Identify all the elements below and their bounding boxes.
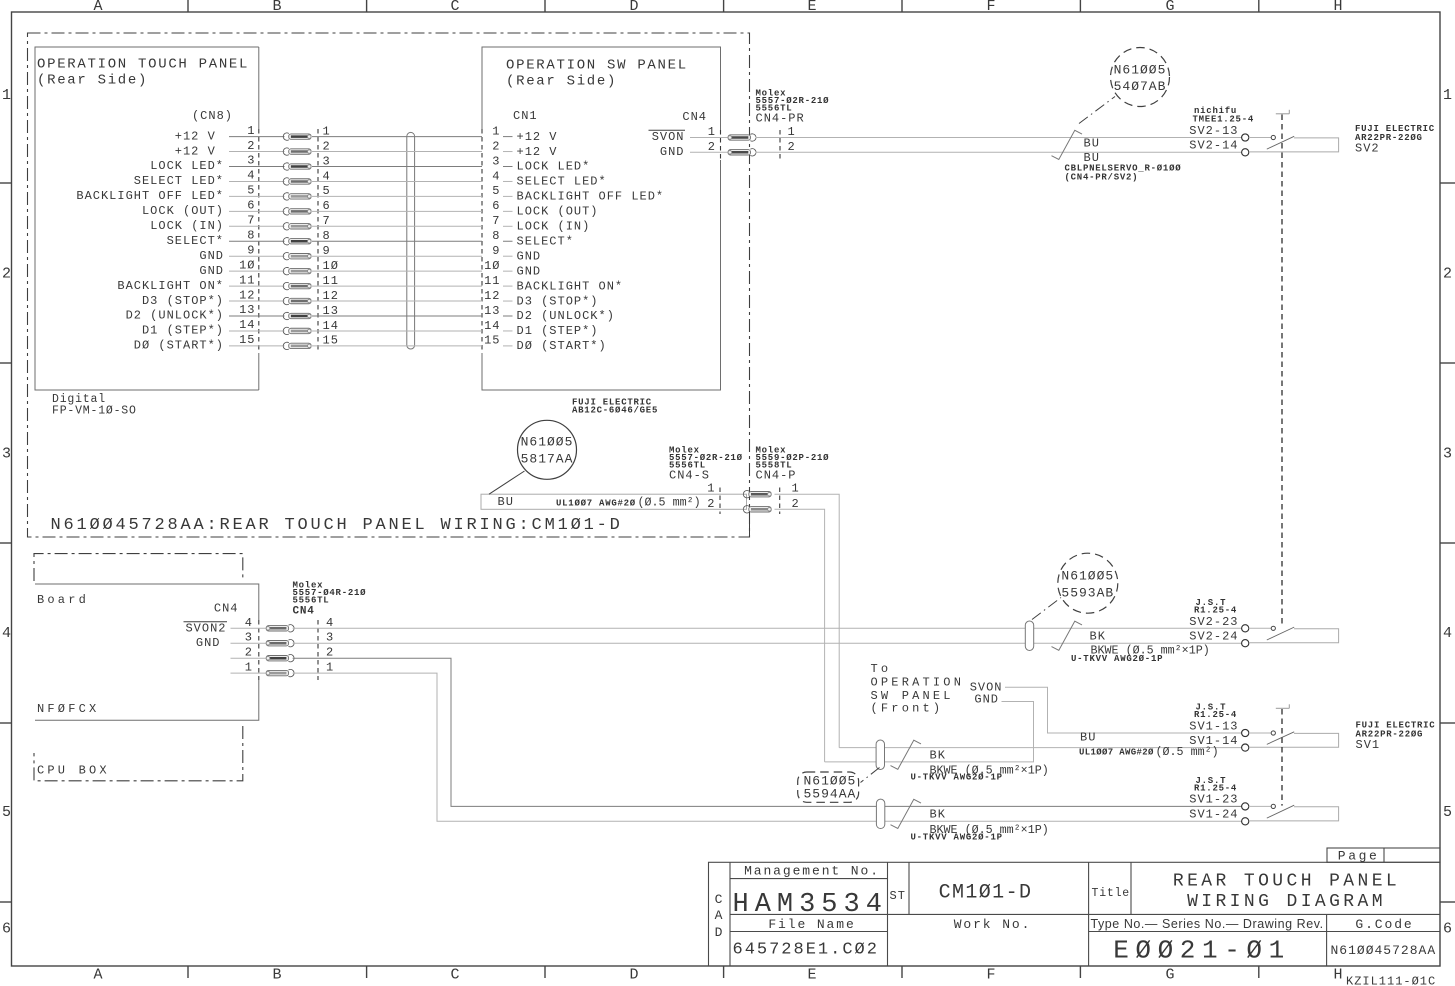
crimp contact CN4-PR pin 2 bbox=[750, 149, 756, 156]
cable break symbol (SV2-23/24 pair) bbox=[1052, 621, 1083, 650]
svg-text:SV1-13: SV1-13 bbox=[1189, 719, 1238, 733]
svg-text:B: B bbox=[272, 0, 281, 15]
svg-text:SV2: SV2 bbox=[1355, 142, 1380, 156]
svg-text:SV1-24: SV1-24 bbox=[1189, 808, 1238, 822]
wire CN8 pin 14 (panel to contact) bbox=[229, 330, 285, 332]
svg-text:5594AA: 5594AA bbox=[804, 787, 857, 802]
wire CN4 pin 2 stub bbox=[690, 151, 728, 153]
svg-text:LOCK (IN): LOCK (IN) bbox=[517, 220, 591, 234]
wire CN8-CN1 pin 3 bbox=[312, 166, 482, 168]
svg-text:(CN4-PR/SV2): (CN4-PR/SV2) bbox=[1065, 173, 1139, 183]
svg-text:N61ØØ5: N61ØØ5 bbox=[521, 435, 574, 450]
wire CN4-PR pin 1 to SV2-13 bbox=[756, 137, 1242, 139]
crimp contact CN8 pin 12 bbox=[283, 297, 289, 304]
svg-text:BACKLIGHT OFF LED*: BACKLIGHT OFF LED* bbox=[76, 189, 224, 203]
wire board pin 3 to SV2-24 bbox=[293, 642, 1242, 644]
wire CN8-CN1 pin 10 bbox=[312, 270, 482, 272]
crimp contact CN8 pin 5 bbox=[283, 193, 289, 200]
svg-text:C: C bbox=[450, 967, 459, 984]
svg-text:GND: GND bbox=[660, 145, 685, 159]
crimp contact CN8 pin 13 bbox=[283, 312, 289, 319]
svg-text:2: 2 bbox=[492, 139, 500, 153]
connector CN4-S boundary (dashed) bbox=[719, 488, 721, 515]
svg-text:F: F bbox=[986, 967, 995, 984]
svg-text:GND: GND bbox=[517, 249, 542, 263]
wire CN8 pin 1 (panel to contact) bbox=[229, 136, 285, 138]
svg-text:6: 6 bbox=[2, 921, 11, 938]
wire CN8 pin 9 (panel to contact) bbox=[229, 255, 285, 257]
svg-text:BU: BU bbox=[1084, 137, 1100, 151]
wire CN8-CN1 pin 15 bbox=[312, 345, 482, 347]
connector CN4-P boundary (dashed) bbox=[779, 488, 781, 515]
wire CN8 pin 6 (panel to contact) bbox=[229, 210, 285, 212]
svg-text:SELECT LED*: SELECT LED* bbox=[134, 174, 224, 188]
svg-text:(Front): (Front) bbox=[871, 701, 944, 715]
wire CN8-CN1 pin 5 bbox=[312, 195, 482, 197]
cable sheath marker BKWE (CN4-P pair) bbox=[876, 740, 884, 769]
svg-text:3: 3 bbox=[1443, 446, 1452, 463]
wire CN8 pin 7 (panel to contact) bbox=[229, 225, 285, 227]
svg-text:OPERATION: OPERATION bbox=[871, 676, 965, 690]
svg-text:GND: GND bbox=[974, 693, 999, 707]
svg-text:13: 13 bbox=[484, 304, 500, 318]
svg-text:15: 15 bbox=[484, 334, 500, 348]
crimp contact board CN4 pin 3 bbox=[289, 640, 295, 647]
svg-text:4: 4 bbox=[326, 616, 334, 630]
svg-text:LOCK (IN): LOCK (IN) bbox=[150, 219, 224, 233]
svg-text:D3 (STOP*): D3 (STOP*) bbox=[142, 294, 224, 308]
svg-text:7: 7 bbox=[247, 214, 255, 228]
revision balloon N61005 5593AB bbox=[1058, 553, 1118, 613]
svg-text:N61ØØ45728AA: N61ØØ45728AA bbox=[1331, 943, 1437, 958]
switch SV1 contact 13-14 bbox=[1242, 729, 1249, 736]
wire CN1 pin 15 stub bbox=[503, 345, 513, 347]
inter-panel cable sheath marker bbox=[407, 132, 415, 349]
wire CN1 pin 7 stub bbox=[503, 225, 513, 227]
wire CN1 pin 3 stub bbox=[503, 166, 513, 168]
svg-text:3: 3 bbox=[2, 446, 11, 463]
revision balloon N61005 5594AA (rounded box) bbox=[798, 772, 859, 802]
svg-text:Board: Board bbox=[37, 593, 89, 607]
svg-text:N61ØØ45728AA:REAR TOUCH PANEL: N61ØØ45728AA:REAR TOUCH PANEL WIRING:CM1… bbox=[51, 516, 623, 535]
wire CN1 pin 12 stub bbox=[503, 300, 513, 302]
svg-text:E: E bbox=[807, 0, 816, 15]
svg-text:CN4: CN4 bbox=[293, 606, 315, 618]
wire CN4 pin 1 stub bbox=[690, 137, 728, 139]
svg-text:CPU BOX: CPU BOX bbox=[37, 764, 110, 778]
cable-assembly enclosure (dash-dot boundary) N610045728AA bbox=[28, 33, 750, 537]
svg-text:9: 9 bbox=[492, 244, 500, 258]
wire CN8-CN1 pin 1 bbox=[312, 136, 482, 138]
wire CN4-P pin 1 (right then down) bbox=[775, 494, 840, 747]
svg-text:2: 2 bbox=[792, 497, 800, 511]
svg-text:D: D bbox=[629, 0, 638, 15]
connector CN1 boundary (dashed) bbox=[481, 129, 483, 353]
crimp contact CN8 pin 11 bbox=[283, 282, 289, 289]
wire CN8 pin 11 (panel to contact) bbox=[229, 285, 285, 287]
svg-text:N61ØØ5: N61ØØ5 bbox=[1061, 569, 1114, 584]
crimp contact CN8 pin 2 bbox=[283, 148, 289, 155]
cable break symbol (SV1-23/24 pair) bbox=[891, 799, 922, 828]
cable sheath marker BKWE (SV2-23/24 pair) bbox=[1025, 621, 1033, 650]
svg-text:1: 1 bbox=[2, 87, 11, 104]
wire GND (front) to CN4-P pin 2 bbox=[825, 702, 1034, 762]
crimp contact CN8 pin 15 bbox=[283, 342, 289, 349]
svg-text:OPERATION TOUCH PANEL: OPERATION TOUCH PANEL bbox=[37, 57, 249, 73]
svg-text:4: 4 bbox=[2, 625, 11, 642]
svg-text:3: 3 bbox=[245, 631, 253, 645]
svg-text:(Rear Side): (Rear Side) bbox=[506, 73, 617, 89]
svg-text:54Ø7AB: 54Ø7AB bbox=[1114, 79, 1167, 94]
wire CN8-CN1 pin 14 bbox=[312, 330, 482, 332]
svg-text:1: 1 bbox=[492, 124, 500, 138]
svg-text:GND: GND bbox=[199, 264, 224, 278]
wire CN1 pin 4 stub bbox=[503, 180, 513, 182]
svg-text:NFØFCX: NFØFCX bbox=[37, 702, 99, 716]
svg-text:ST: ST bbox=[890, 889, 906, 903]
leader to balloon 5593AB bbox=[1032, 598, 1061, 620]
mechanical link SV1 (dashed) bbox=[1276, 707, 1290, 709]
svg-text:SV2-14: SV2-14 bbox=[1189, 139, 1238, 153]
svg-text:11: 11 bbox=[239, 273, 255, 287]
page cell bbox=[1327, 848, 1440, 862]
title block bbox=[709, 862, 1441, 966]
svg-text:5: 5 bbox=[2, 804, 11, 821]
svg-text:LOCK (OUT): LOCK (OUT) bbox=[517, 205, 599, 219]
wire CN8 pin 12 (panel to contact) bbox=[229, 300, 285, 302]
svg-text:OPERATION SW PANEL: OPERATION SW PANEL bbox=[506, 57, 688, 73]
svg-text:File Name: File Name bbox=[768, 917, 855, 932]
wire CN8 pin 2 (panel to contact) bbox=[229, 151, 285, 153]
svg-text:14: 14 bbox=[484, 319, 500, 333]
svg-text:3: 3 bbox=[247, 154, 255, 168]
svg-text:SV2-23: SV2-23 bbox=[1189, 615, 1238, 629]
svg-text:+12 V: +12 V bbox=[175, 129, 224, 143]
svg-text:Type No.— Series No.— Drawing: Type No.— Series No.— Drawing Rev. bbox=[1091, 917, 1324, 931]
svg-text:UL1ØØ7 AWG#2Ø: UL1ØØ7 AWG#2Ø bbox=[1079, 748, 1154, 758]
crimp contact CN8 pin 8 bbox=[283, 238, 289, 245]
wire board CN4 pin 4 stub bbox=[231, 627, 266, 629]
svg-text:1Ø: 1Ø bbox=[239, 258, 255, 272]
svg-text:645728E1.CØ2: 645728E1.CØ2 bbox=[733, 941, 879, 960]
svg-text:SELECT*: SELECT* bbox=[167, 234, 224, 248]
wire CN8-CN1 pin 13 bbox=[312, 315, 482, 317]
svg-text:7: 7 bbox=[492, 214, 500, 228]
wire CN8 pin 8 (panel to contact) bbox=[229, 240, 285, 242]
svg-text:6: 6 bbox=[1443, 921, 1452, 938]
svg-text:G.Code: G.Code bbox=[1355, 917, 1413, 932]
wire CN1 pin 13 stub bbox=[503, 315, 513, 317]
wire SVON to SV1-13 bbox=[1005, 687, 1242, 733]
svg-text:AB12C-6Ø46/GE5: AB12C-6Ø46/GE5 bbox=[572, 406, 658, 416]
svg-text:1: 1 bbox=[247, 124, 255, 138]
connector CN4 cable boundary (dashed) bbox=[317, 620, 319, 680]
svg-text:+12 V: +12 V bbox=[517, 145, 558, 159]
operation sw panel outline (rear side) bbox=[482, 47, 721, 390]
svg-text:12: 12 bbox=[239, 288, 255, 302]
svg-text:1Ø: 1Ø bbox=[484, 259, 500, 273]
svg-text:GND: GND bbox=[199, 249, 224, 263]
enclosure edge stub below CN4-P bbox=[749, 512, 751, 537]
svg-text:2: 2 bbox=[245, 646, 253, 660]
svg-text:UL1ØØ7 AWG#2Ø: UL1ØØ7 AWG#2Ø bbox=[556, 499, 636, 509]
svg-text:(CN8): (CN8) bbox=[192, 109, 233, 123]
svg-text:15: 15 bbox=[239, 333, 255, 347]
svg-text:D: D bbox=[715, 925, 724, 940]
crimp contact CN8 pin 10 bbox=[283, 268, 289, 275]
svg-text:A: A bbox=[715, 908, 724, 923]
svg-text:FP-VM-1Ø-SO: FP-VM-1Ø-SO bbox=[52, 405, 137, 418]
svg-text:4: 4 bbox=[1443, 625, 1452, 642]
svg-text:SELECT*: SELECT* bbox=[517, 234, 574, 248]
svg-text:3: 3 bbox=[326, 631, 334, 645]
wire CN1 pin 2 stub bbox=[503, 151, 513, 153]
crimp contact CN8 pin 14 bbox=[283, 327, 289, 334]
svg-text:BK: BK bbox=[930, 808, 946, 822]
svg-text:SV1: SV1 bbox=[1356, 738, 1381, 752]
svg-text:11: 11 bbox=[484, 274, 500, 288]
connector CN8 plug boundary (dashed) bbox=[258, 129, 260, 353]
svg-text:1: 1 bbox=[708, 125, 716, 139]
svg-text:Page: Page bbox=[1338, 848, 1380, 863]
svg-text:4: 4 bbox=[492, 169, 500, 183]
wire CN8-CN1 pin 2 bbox=[312, 151, 482, 153]
wire CN8 pin 5 (panel to contact) bbox=[229, 195, 285, 197]
crimp contact board CN4 pin 4 bbox=[289, 625, 295, 632]
svg-text:HAM3534: HAM3534 bbox=[733, 890, 888, 920]
switch SV2 contact 23-24 bbox=[1242, 625, 1249, 632]
CN8 receptacle boundary (dashed) bbox=[317, 129, 319, 353]
svg-text:2: 2 bbox=[326, 646, 334, 660]
svg-text:DØ (START*): DØ (START*) bbox=[134, 339, 224, 353]
svg-text:1: 1 bbox=[326, 661, 334, 675]
svg-text:WIRING DIAGRAM: WIRING DIAGRAM bbox=[1187, 892, 1386, 912]
wire CN8 pin 3 (panel to contact) bbox=[229, 166, 285, 168]
wire board pin 1 (right, down, right to SV1-24) bbox=[293, 673, 1242, 821]
svg-text:H: H bbox=[1333, 967, 1342, 984]
svg-text:U-TKVV AWG2Ø-1P: U-TKVV AWG2Ø-1P bbox=[911, 833, 1003, 843]
wire CN8-CN1 pin 11 bbox=[312, 285, 482, 287]
svg-text:2: 2 bbox=[247, 139, 255, 153]
svg-text:F: F bbox=[986, 0, 995, 15]
wire CN8 pin 4 (panel to contact) bbox=[229, 180, 285, 182]
svg-text:G: G bbox=[1165, 0, 1174, 15]
svg-text:CM1Ø1-D: CM1Ø1-D bbox=[939, 882, 1033, 905]
wire CN1 pin 11 stub bbox=[503, 285, 513, 287]
svg-text:CN4-PR: CN4-PR bbox=[756, 112, 805, 126]
svg-text:D1 (STEP*): D1 (STEP*) bbox=[517, 324, 599, 338]
svg-text:2: 2 bbox=[1443, 266, 1452, 283]
CPU box boundary (dash-dot, upper part) bbox=[34, 554, 243, 581]
svg-text:14: 14 bbox=[239, 318, 255, 332]
svg-text:2: 2 bbox=[788, 140, 796, 154]
svg-text:KZIL111-Ø1C: KZIL111-Ø1C bbox=[1346, 975, 1436, 986]
connector CN4 boundary (dashed) bbox=[720, 130, 722, 160]
connector CN4 board boundary (dashed) bbox=[258, 620, 260, 680]
revision balloon N61005 5817AA bbox=[518, 420, 577, 479]
svg-text:To: To bbox=[871, 662, 892, 676]
wire CN4-P pin 1 to SV1-14 bbox=[839, 747, 1241, 749]
svg-text:CN4: CN4 bbox=[214, 602, 239, 616]
svg-text:BACKLIGHT OFF LED*: BACKLIGHT OFF LED* bbox=[517, 190, 665, 204]
svg-text:SVON2: SVON2 bbox=[185, 621, 226, 635]
crimp contact CN4-S pin 1 bbox=[743, 491, 749, 498]
svg-text:1: 1 bbox=[792, 482, 800, 496]
revision balloon N61005 5407AB bbox=[1111, 48, 1170, 107]
wire CN8 pin 15 (panel to contact) bbox=[229, 345, 285, 347]
svg-text:DØ (START*): DØ (START*) bbox=[517, 339, 607, 353]
wire board pin 2 (right, down, right to SV1-23) bbox=[293, 658, 1242, 806]
wire CN4-P pin 2 (right then down) bbox=[775, 509, 825, 762]
crimp contact CN8 pin 7 bbox=[283, 223, 289, 230]
wire CN8-CN1 pin 7 bbox=[312, 225, 482, 227]
svg-text:H: H bbox=[1333, 0, 1342, 15]
leader to balloon 5594AA bbox=[861, 768, 880, 783]
crimp contact board CN4 pin 1 bbox=[289, 669, 295, 676]
connector CN4-PR boundary (dashed) bbox=[779, 130, 781, 160]
crimp contact CN8 pin 3 bbox=[283, 163, 289, 170]
board outline NF0FCX bbox=[35, 584, 259, 720]
crimp contact board CN4 pin 2 bbox=[289, 655, 295, 662]
switch SV1 contact 23-24 bbox=[1242, 803, 1249, 810]
wire CN1 pin 8 stub bbox=[503, 240, 513, 242]
svg-text:BACKLIGHT ON*: BACKLIGHT ON* bbox=[117, 279, 224, 293]
svg-text:5: 5 bbox=[1443, 804, 1452, 821]
svg-text:CN4: CN4 bbox=[682, 110, 707, 124]
svg-text:8: 8 bbox=[247, 228, 255, 242]
wire board pin 4 to SV2-23 bbox=[293, 627, 1242, 629]
svg-text:GND: GND bbox=[517, 264, 542, 278]
svg-text:C: C bbox=[715, 892, 724, 907]
operation touch panel outline (rear side) bbox=[35, 47, 259, 390]
svg-text:LOCK LED*: LOCK LED* bbox=[150, 159, 224, 173]
svg-text:5817AA: 5817AA bbox=[521, 452, 574, 467]
svg-text:+12 V: +12 V bbox=[517, 130, 558, 144]
switch SV2 contact 13-14 bbox=[1242, 134, 1249, 141]
cable sheath marker BKWE (SV1-23/24 pair) bbox=[876, 799, 884, 828]
svg-text:+12 V: +12 V bbox=[175, 144, 224, 158]
svg-text:5: 5 bbox=[247, 184, 255, 198]
svg-text:2: 2 bbox=[707, 497, 715, 511]
svg-text:SVON: SVON bbox=[652, 130, 685, 144]
svg-text:12: 12 bbox=[484, 289, 500, 303]
svg-text:SELECT LED*: SELECT LED* bbox=[517, 175, 607, 189]
svg-text:1: 1 bbox=[707, 482, 715, 496]
wire CN8-CN1 pin 4 bbox=[312, 180, 482, 182]
cable break symbol on BU pair bbox=[1052, 130, 1083, 159]
svg-text:D: D bbox=[629, 967, 638, 984]
svg-text:CN1: CN1 bbox=[513, 109, 538, 123]
svg-text:A: A bbox=[93, 967, 102, 984]
crimp contact CN4-PR pin 1 bbox=[750, 134, 756, 141]
wire board CN4 pin 1 stub bbox=[231, 672, 266, 674]
svg-text:U-TKVV AWG2Ø-1P: U-TKVV AWG2Ø-1P bbox=[1071, 654, 1163, 664]
svg-text:Management No.: Management No. bbox=[744, 864, 880, 879]
wire CN8-CN1 pin 8 bbox=[312, 240, 482, 242]
wire CN1 pin 5 stub bbox=[503, 195, 513, 197]
wire CN8-CN1 pin 9 bbox=[312, 255, 482, 257]
svg-text:SV1-14: SV1-14 bbox=[1189, 734, 1238, 748]
CPU box boundary (dash-dot, lower part) bbox=[34, 726, 243, 781]
svg-text:D2 (UNLOCK*): D2 (UNLOCK*) bbox=[517, 309, 615, 323]
svg-text:13: 13 bbox=[239, 303, 255, 317]
svg-text:BK: BK bbox=[1090, 630, 1106, 644]
cable break symbol (CN4-P pair) bbox=[891, 740, 922, 769]
svg-text:G: G bbox=[1165, 967, 1174, 984]
svg-text:1: 1 bbox=[1443, 87, 1452, 104]
svg-text:5: 5 bbox=[492, 184, 500, 198]
svg-text:6: 6 bbox=[247, 199, 255, 213]
wire CN1 pin 14 stub bbox=[503, 330, 513, 332]
svg-text:6: 6 bbox=[492, 199, 500, 213]
wire CN1 pin 1 stub bbox=[503, 136, 513, 138]
svg-text:1: 1 bbox=[245, 661, 253, 675]
BU cable jacket box bbox=[481, 494, 747, 509]
svg-text:Title: Title bbox=[1092, 887, 1131, 900]
svg-text:N61ØØ5: N61ØØ5 bbox=[1114, 63, 1167, 78]
svg-text:2: 2 bbox=[2, 266, 11, 283]
svg-text:U-TKVV AWG2Ø-1P: U-TKVV AWG2Ø-1P bbox=[911, 773, 1003, 783]
svg-text:5593AB: 5593AB bbox=[1061, 586, 1114, 601]
svg-text:BU: BU bbox=[1080, 731, 1096, 745]
wire CN8 pin 10 (panel to contact) bbox=[229, 270, 285, 272]
crimp contact CN8 pin 4 bbox=[283, 178, 289, 185]
svg-text:REAR TOUCH PANEL: REAR TOUCH PANEL bbox=[1173, 872, 1400, 892]
wire CN4-PR pin 2 to SV2-14 bbox=[756, 151, 1242, 153]
crimp contact CN8 pin 1 bbox=[283, 133, 289, 140]
crimp contact CN8 pin 6 bbox=[283, 208, 289, 215]
balloon leader to BU cable bbox=[489, 471, 525, 494]
svg-text:8: 8 bbox=[492, 229, 500, 243]
svg-text:SV2-13: SV2-13 bbox=[1189, 124, 1238, 138]
svg-text:E: E bbox=[807, 967, 816, 984]
wire board CN4 pin 2 stub bbox=[231, 657, 266, 659]
wire CN1 pin 10 stub bbox=[503, 270, 513, 272]
mechanical link SV2 (dashed) bbox=[1276, 113, 1290, 115]
svg-text:GND: GND bbox=[196, 636, 221, 650]
svg-text:Work No.: Work No. bbox=[954, 917, 1032, 932]
svg-text:5556TL: 5556TL bbox=[293, 596, 330, 606]
svg-text:(Rear Side): (Rear Side) bbox=[37, 73, 148, 89]
svg-text:CN4-S: CN4-S bbox=[669, 469, 710, 483]
wire CN1 pin 6 stub bbox=[503, 210, 513, 212]
svg-text:LOCK (OUT): LOCK (OUT) bbox=[142, 204, 224, 218]
svg-text:9: 9 bbox=[247, 243, 255, 257]
svg-text:EØØ21-Ø1: EØØ21-Ø1 bbox=[1113, 936, 1291, 966]
crimp contact CN8 pin 9 bbox=[283, 253, 289, 260]
svg-text:D1 (STEP*): D1 (STEP*) bbox=[142, 324, 224, 338]
svg-text:D3 (STOP*): D3 (STOP*) bbox=[517, 294, 599, 308]
svg-text:3: 3 bbox=[492, 154, 500, 168]
svg-text:A: A bbox=[93, 0, 102, 15]
svg-text:2: 2 bbox=[708, 140, 716, 154]
svg-text:4: 4 bbox=[247, 169, 255, 183]
leader to balloon 5407AB bbox=[1079, 97, 1115, 124]
svg-text:C: C bbox=[450, 0, 459, 15]
wire CN8-CN1 pin 12 bbox=[312, 300, 482, 302]
svg-text:B: B bbox=[272, 967, 281, 984]
svg-text:BK: BK bbox=[930, 749, 946, 763]
wire board CN4 pin 3 stub bbox=[231, 642, 266, 644]
wire CN8-CN1 pin 6 bbox=[312, 210, 482, 212]
svg-text:1: 1 bbox=[788, 125, 796, 139]
svg-text:CN4-P: CN4-P bbox=[756, 469, 797, 483]
svg-text:BACKLIGHT ON*: BACKLIGHT ON* bbox=[517, 279, 624, 293]
wire CN1 pin 9 stub bbox=[503, 255, 513, 257]
svg-text:(Ø.5 mm²): (Ø.5 mm²) bbox=[638, 496, 701, 510]
svg-text:4: 4 bbox=[245, 616, 253, 630]
svg-text:SV2-24: SV2-24 bbox=[1189, 630, 1238, 644]
